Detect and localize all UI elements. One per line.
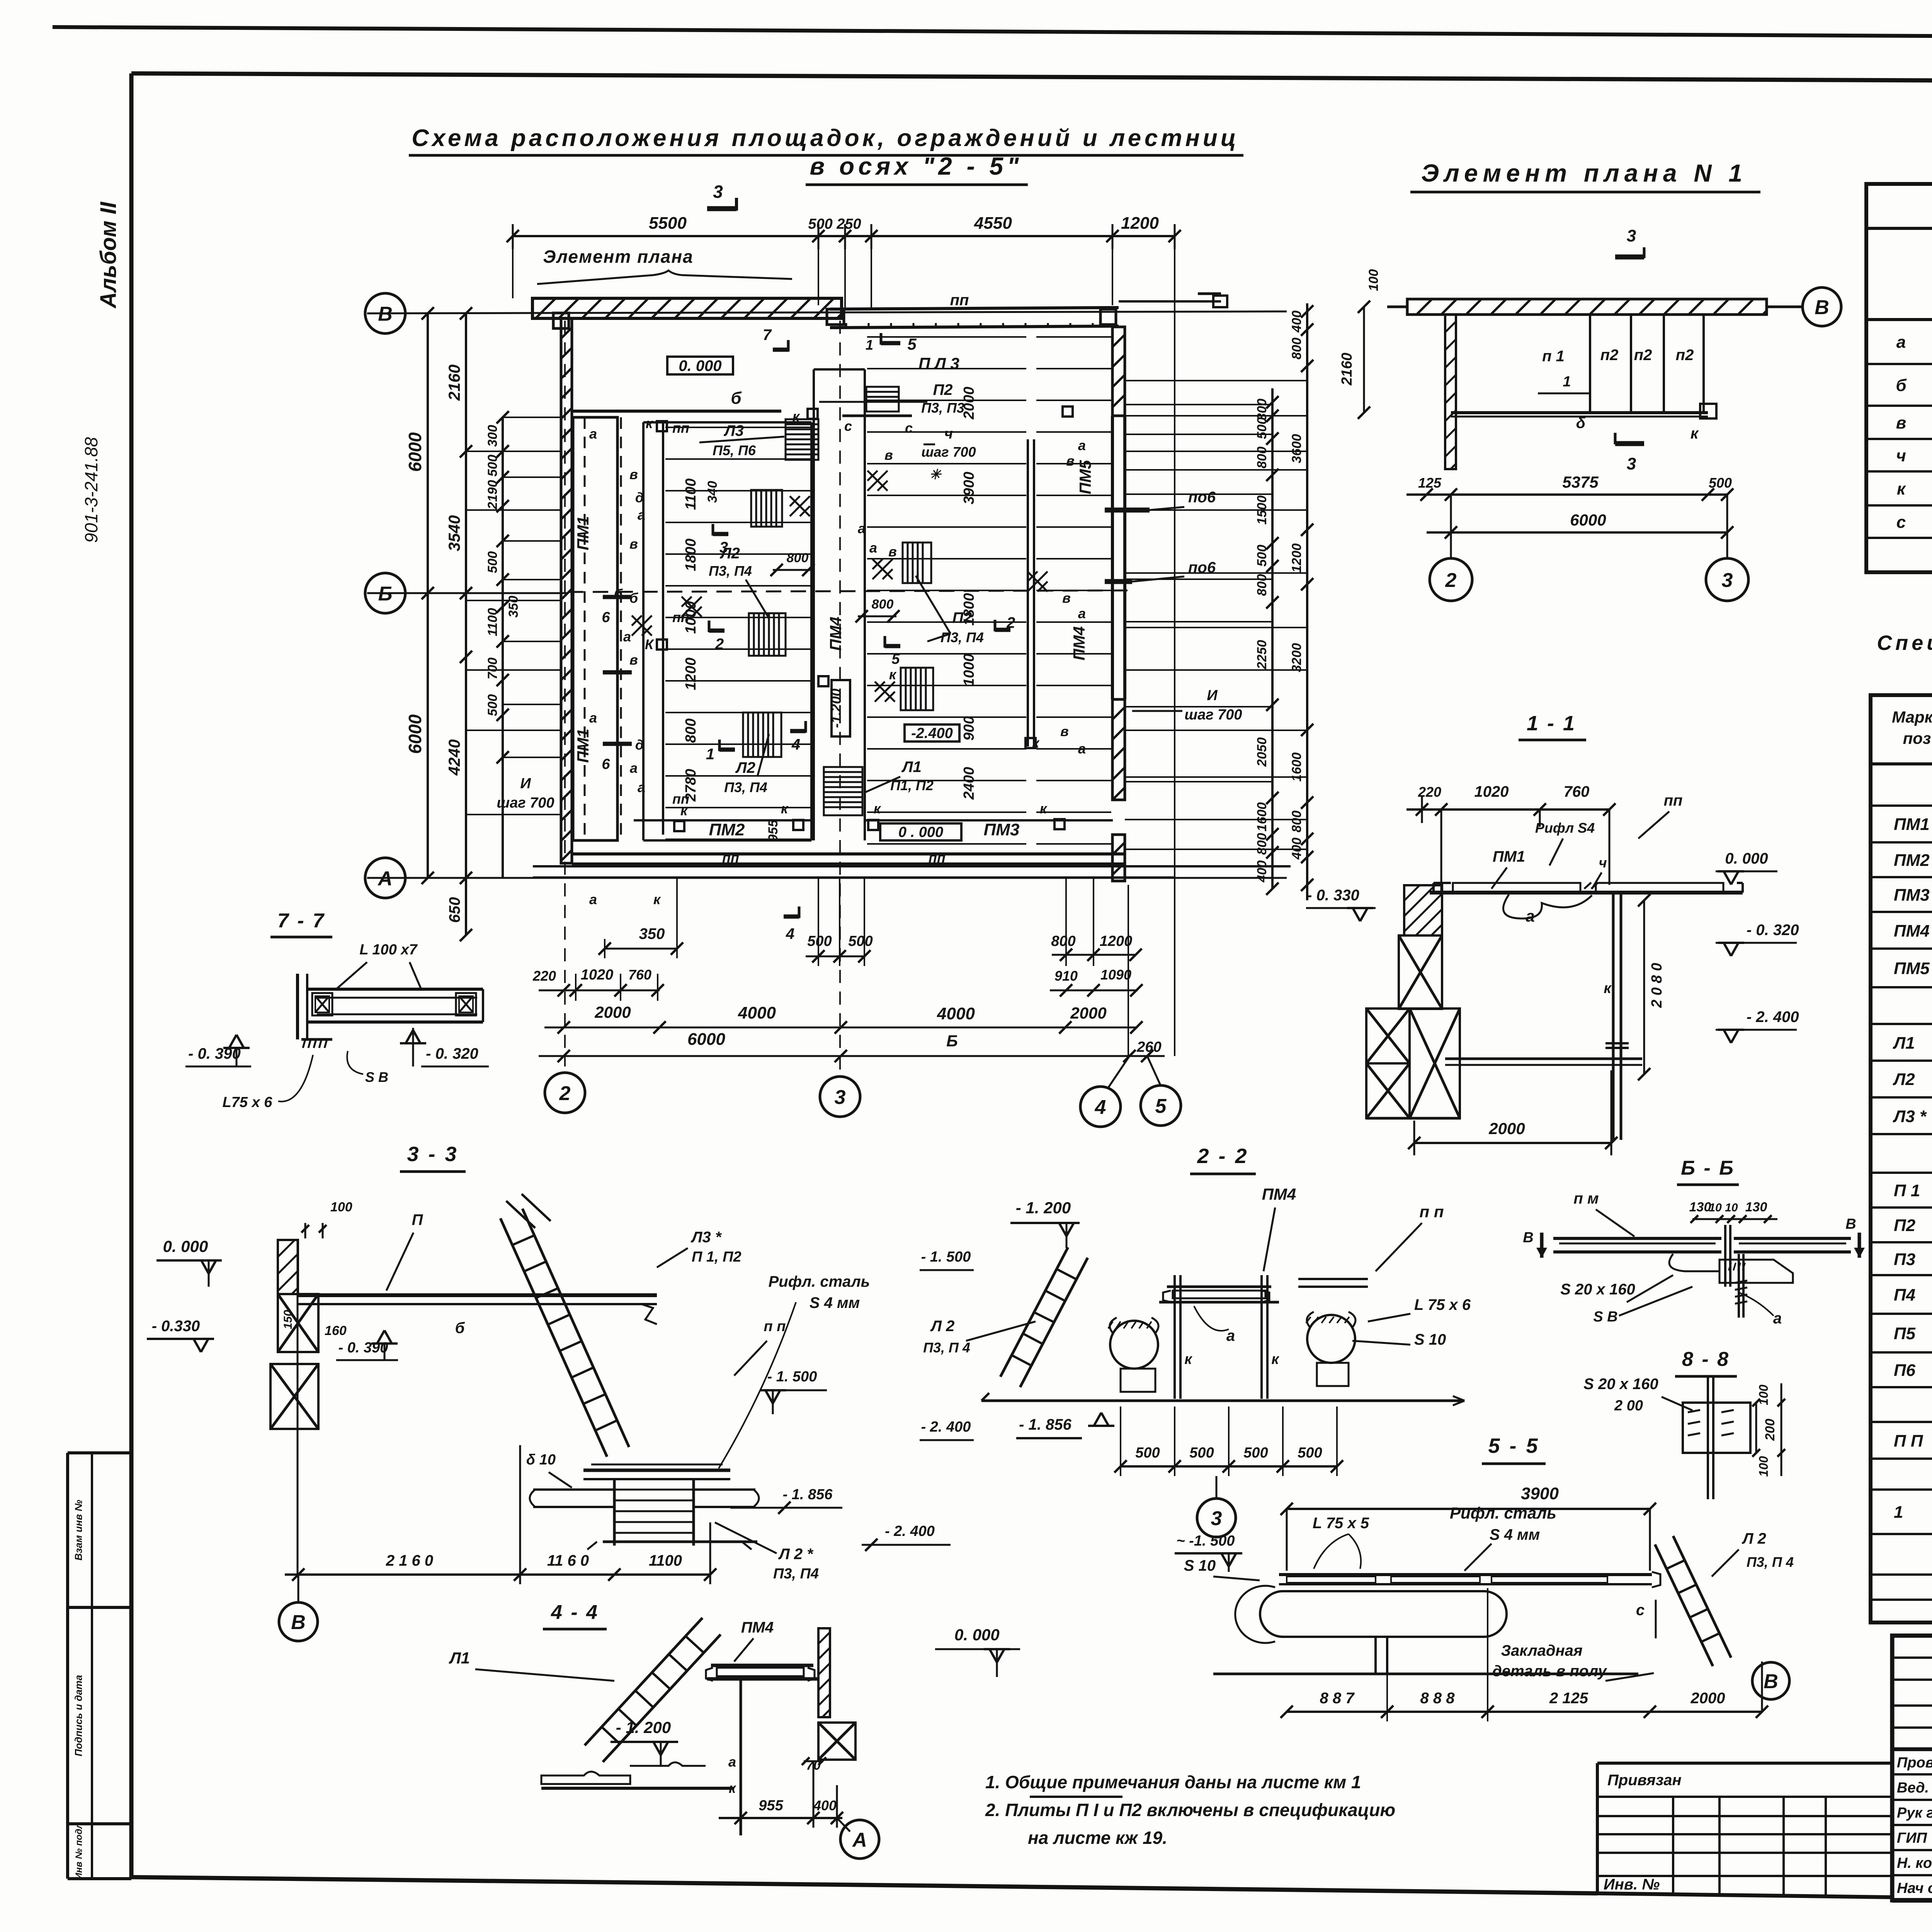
svg-text:ПМ1: ПМ1 bbox=[574, 729, 592, 763]
svg-text:п м: п м bbox=[1573, 1190, 1599, 1207]
svg-text:3: 3 bbox=[1211, 1507, 1222, 1530]
svg-text:955: 955 bbox=[759, 1798, 783, 1814]
svg-text:Б: Б bbox=[378, 583, 393, 605]
svg-text:8 - 8: 8 - 8 bbox=[1682, 1348, 1730, 1371]
svg-text:по6: по6 bbox=[1188, 489, 1216, 506]
label box 0.000 bottom bbox=[880, 823, 961, 840]
svg-text:Инв № подл: Инв № подл bbox=[74, 1823, 84, 1879]
svg-text:Схема расположения площадок,: Схема расположения площадок, ограждений … bbox=[412, 125, 1239, 151]
plan: long extension lines right bbox=[1125, 380, 1307, 381]
svg-text:В: В bbox=[291, 1611, 306, 1634]
svg-text:200: 200 bbox=[1763, 1419, 1777, 1441]
1-1 column k bbox=[1612, 893, 1615, 1140]
svg-text:Рифл S4: Рифл S4 bbox=[1535, 820, 1595, 836]
svg-text:7 - 7: 7 - 7 bbox=[277, 910, 325, 932]
svg-text:125: 125 bbox=[1418, 475, 1442, 491]
svg-text:Рифл. сталь: Рифл. сталь bbox=[769, 1273, 870, 1290]
svg-text:S B: S B bbox=[365, 1069, 388, 1085]
svg-text:0 . 000: 0 . 000 bbox=[898, 824, 943, 840]
svg-text:с: с bbox=[1636, 1602, 1645, 1619]
svg-text:П4: П4 bbox=[1894, 1286, 1915, 1304]
svg-text:955: 955 bbox=[766, 820, 781, 842]
svg-text:2: 2 bbox=[715, 636, 724, 653]
svg-text:400: 400 bbox=[813, 1798, 837, 1813]
plan: left dim chain 2 bbox=[465, 313, 467, 935]
3-3 floor plate bbox=[298, 1293, 657, 1297]
svg-text:L 75 x 5: L 75 x 5 bbox=[1313, 1515, 1369, 1532]
svg-text:б: б bbox=[455, 1320, 465, 1337]
svg-text:2 0 8 0: 2 0 8 0 bbox=[1649, 963, 1665, 1008]
svg-text:-2.400: -2.400 bbox=[911, 725, 953, 742]
svg-text:260: 260 bbox=[1136, 1039, 1161, 1055]
svg-text:А: А bbox=[377, 867, 393, 890]
svg-text:б: б bbox=[731, 389, 742, 408]
svg-text:Л1: Л1 bbox=[1893, 1034, 1915, 1053]
svg-text:к: к bbox=[781, 801, 789, 816]
title block frame bbox=[1892, 1636, 1932, 1900]
svg-text:-1.200: -1.200 bbox=[828, 689, 844, 728]
1-1 lower floor line bbox=[1445, 1058, 1642, 1060]
plan: right wall hatched bbox=[1112, 327, 1125, 416]
3-3 axis circle B bbox=[298, 1575, 299, 1602]
svg-text:1090: 1090 bbox=[1100, 967, 1131, 983]
svg-text:2190: 2190 bbox=[485, 480, 500, 510]
svg-text:в: в bbox=[629, 652, 638, 668]
detail axis circles 2,3 bbox=[1450, 539, 1452, 560]
svg-text:А: А bbox=[852, 1829, 867, 1851]
svg-text:5: 5 bbox=[907, 335, 917, 353]
plan: section flag 3 top bbox=[707, 206, 736, 211]
svg-text:ПМ5: ПМ5 bbox=[1894, 959, 1930, 978]
small dims 800 bbox=[773, 569, 811, 571]
3-3 bottom dims bbox=[285, 1573, 710, 1576]
svg-text:Л1: Л1 bbox=[449, 1649, 470, 1667]
spec rows bbox=[1871, 804, 1932, 807]
svg-text:В: В bbox=[1523, 1230, 1533, 1246]
svg-text:2: 2 bbox=[559, 1082, 571, 1105]
svg-text:И: И bbox=[1207, 687, 1218, 704]
svg-text:с: с bbox=[905, 420, 913, 436]
svg-text:П3, П4: П3, П4 bbox=[940, 629, 984, 645]
svg-text:ч: ч bbox=[944, 426, 953, 442]
2-2 bottom dims bbox=[1121, 1465, 1337, 1468]
svg-text:500: 500 bbox=[1709, 475, 1732, 491]
svg-text:δ: δ bbox=[1576, 415, 1586, 432]
svg-text:Взам инв №: Взам инв № bbox=[73, 1500, 84, 1560]
svg-text:L 75 x 6: L 75 x 6 bbox=[1414, 1296, 1471, 1313]
svg-text:п п: п п bbox=[764, 1318, 786, 1335]
plan bottom dims: 220 1020 760 bbox=[539, 990, 660, 992]
svg-text:п2: п2 bbox=[1676, 347, 1694, 364]
7-7 bracket below bbox=[301, 1038, 332, 1041]
svg-text:ПМ4: ПМ4 bbox=[741, 1619, 774, 1636]
right interior platform edge bbox=[1027, 439, 1029, 747]
svg-text:к: к bbox=[1271, 1351, 1279, 1367]
svg-text:500: 500 bbox=[485, 455, 500, 477]
4-4 steps bbox=[541, 1772, 630, 1784]
svg-text:4000: 4000 bbox=[937, 1004, 975, 1023]
svg-text:Привязан: Привязан bbox=[1607, 1772, 1682, 1789]
svg-text:6: 6 bbox=[602, 756, 610, 772]
axis circle А bbox=[365, 858, 405, 898]
plan: bottom band bbox=[572, 852, 1125, 855]
svg-text:ПМ4: ПМ4 bbox=[1070, 626, 1088, 661]
svg-text:800: 800 bbox=[1255, 447, 1269, 469]
svg-text:S 20 x 160: S 20 x 160 bbox=[1583, 1376, 1658, 1393]
left margin boxes bbox=[68, 1451, 131, 1454]
svg-text:500: 500 bbox=[1255, 417, 1269, 439]
svg-text:К: К bbox=[645, 636, 655, 652]
1-1 top dims bbox=[1406, 808, 1609, 811]
svg-text:в: в bbox=[629, 466, 638, 482]
svg-text:6000: 6000 bbox=[687, 1030, 725, 1049]
svg-text:П 1, П2: П 1, П2 bbox=[692, 1249, 742, 1265]
label box -1.200 bbox=[832, 680, 850, 736]
svg-text:500: 500 bbox=[1135, 1445, 1160, 1461]
3-3 shaft box with rungs bbox=[613, 1479, 616, 1546]
plan: central interior outline bbox=[643, 421, 811, 423]
svg-text:Элемент плана N 1: Элемент плана N 1 bbox=[1421, 159, 1747, 187]
vedomost table frame bbox=[1866, 184, 1932, 572]
svg-text:2160: 2160 bbox=[1339, 353, 1355, 386]
plan: axis line B bbox=[367, 311, 1287, 313]
svg-text:а: а bbox=[728, 1754, 736, 1770]
5-5 top dim 3900 bbox=[1287, 1508, 1650, 1510]
svg-text:1: 1 bbox=[706, 746, 714, 763]
svg-text:350: 350 bbox=[639, 925, 665, 942]
plan bottom dims: 6000 B 260 bbox=[539, 1055, 1165, 1057]
svg-text:L75 x 6: L75 x 6 bbox=[223, 1094, 273, 1111]
svg-text:к: к bbox=[680, 803, 688, 818]
axis circle 3 bbox=[839, 321, 841, 1077]
plan bottom dims: 910 1090 bbox=[1050, 990, 1138, 992]
svg-text:поз: поз bbox=[1903, 729, 1931, 747]
svg-text:S 10: S 10 bbox=[1184, 1557, 1216, 1574]
svg-text:П 1: П 1 bbox=[1894, 1181, 1920, 1200]
svg-text:п 1: п 1 bbox=[1542, 348, 1565, 365]
4-4 bottom dims bbox=[719, 1817, 842, 1819]
svg-text:800: 800 bbox=[1051, 933, 1075, 949]
svg-text:6000: 6000 bbox=[405, 714, 425, 754]
svg-text:п п: п п bbox=[1420, 1202, 1444, 1221]
svg-text:деталь в полу: деталь в полу bbox=[1492, 1663, 1607, 1680]
plan: axis line Б bbox=[367, 592, 568, 594]
svg-text:пп: пп bbox=[929, 850, 946, 866]
svg-text:500: 500 bbox=[807, 933, 832, 949]
spec table frame bbox=[1871, 695, 1932, 1622]
plan: top wall column squares bbox=[553, 313, 569, 328]
plan: T marks left bbox=[603, 595, 632, 599]
svg-text:П2: П2 bbox=[933, 381, 952, 398]
svg-text:ПМ2: ПМ2 bbox=[1894, 851, 1930, 870]
svg-text:5500: 5500 bbox=[649, 214, 687, 233]
svg-text:В: В bbox=[1764, 1670, 1778, 1693]
svg-text:3: 3 bbox=[713, 182, 723, 202]
svg-text:к: к bbox=[1604, 980, 1612, 997]
plan: right extension ticks bbox=[1119, 300, 1221, 303]
svg-text:ПМ2: ПМ2 bbox=[709, 820, 745, 839]
svg-text:800: 800 bbox=[1255, 574, 1269, 596]
svg-text:а: а bbox=[1078, 437, 1086, 453]
svg-text:150: 150 bbox=[282, 1310, 294, 1329]
svg-text:400: 400 bbox=[1289, 838, 1304, 860]
svg-text:3: 3 bbox=[1627, 226, 1636, 245]
svg-text:Альбом II: Альбом II bbox=[96, 201, 121, 309]
svg-text:10 10: 10 10 bbox=[1709, 1201, 1738, 1214]
svg-text:П3, П3: П3, П3 bbox=[921, 400, 964, 416]
svg-text:800: 800 bbox=[1289, 338, 1304, 360]
svg-text:к: к bbox=[1897, 480, 1906, 498]
axis circle 4 bbox=[1128, 885, 1129, 1056]
plan: extension lines above (top dims) bbox=[818, 243, 819, 305]
svg-text:ПМ1: ПМ1 bbox=[1493, 848, 1525, 865]
svg-text:Л2: Л2 bbox=[735, 759, 755, 776]
svg-text:130: 130 bbox=[1745, 1200, 1767, 1214]
svg-text:700: 700 bbox=[485, 658, 500, 680]
svg-text:100: 100 bbox=[330, 1200, 352, 1214]
5-5 right ladder bbox=[1673, 1536, 1731, 1658]
privyazan table bbox=[1597, 1762, 1892, 1765]
plan: long extension lines left bbox=[466, 451, 561, 452]
detail section marks 3 bbox=[1615, 255, 1644, 260]
svg-text:в: в bbox=[1062, 590, 1071, 606]
svg-text:2780: 2780 bbox=[683, 769, 699, 802]
svg-text:И: И bbox=[520, 776, 531, 792]
plan bottom dims: 2000 4000 4000 2000 bbox=[544, 1027, 1138, 1029]
svg-text:Подпись и дата: Подпись и дата bbox=[73, 1675, 84, 1757]
svg-text:✳: ✳ bbox=[929, 466, 942, 482]
svg-text:Б: Б bbox=[946, 1032, 958, 1050]
svg-text:в: в bbox=[629, 536, 638, 552]
svg-text:100: 100 bbox=[1757, 1384, 1770, 1405]
section flags in plan bbox=[773, 348, 788, 352]
svg-text:ПМ1: ПМ1 bbox=[574, 516, 592, 551]
svg-text:Л 2: Л 2 bbox=[930, 1318, 955, 1335]
svg-text:- 1. 200: - 1. 200 bbox=[616, 1718, 671, 1736]
svg-text:2 1 6 0: 2 1 6 0 bbox=[386, 1552, 433, 1569]
svg-text:а: а bbox=[869, 540, 877, 556]
plan: left dim chain 1 bbox=[427, 313, 429, 878]
svg-text:а: а bbox=[1896, 333, 1906, 352]
svg-text:П3, П4: П3, П4 bbox=[709, 563, 752, 579]
2-2 pipes bbox=[1110, 1321, 1158, 1369]
svg-text:800: 800 bbox=[872, 597, 894, 612]
svg-text:800: 800 bbox=[787, 551, 809, 565]
svg-text:S 10: S 10 bbox=[1414, 1331, 1446, 1348]
axis circle Б bbox=[365, 573, 405, 613]
3-3 wall column bbox=[278, 1240, 298, 1294]
plan: interior top beam b bbox=[571, 410, 781, 413]
svg-text:Провер: Провер bbox=[1897, 1755, 1932, 1771]
svg-text:ч: ч bbox=[1896, 446, 1906, 465]
svg-text:500: 500 bbox=[485, 694, 500, 716]
svg-text:5: 5 bbox=[1155, 1095, 1167, 1117]
svg-text:11 6 0: 11 6 0 bbox=[547, 1552, 589, 1569]
svg-text:1000: 1000 bbox=[961, 654, 977, 687]
svg-text:1020: 1020 bbox=[1475, 783, 1509, 800]
svg-text:400: 400 bbox=[1255, 861, 1269, 883]
Б-Б platform plates bbox=[1553, 1237, 1721, 1240]
svg-text:- 1. 200: - 1. 200 bbox=[1016, 1199, 1071, 1217]
svg-text:шаг 700: шаг 700 bbox=[1184, 707, 1242, 723]
svg-text:П: П bbox=[412, 1211, 423, 1228]
axis circle 2 bbox=[564, 321, 566, 1066]
svg-text:L 100 x7: L 100 x7 bbox=[359, 942, 418, 958]
po6 labels right bbox=[1105, 508, 1150, 513]
svg-text:760: 760 bbox=[628, 967, 651, 983]
svg-text:ПМ4: ПМ4 bbox=[827, 617, 845, 651]
svg-text:2050: 2050 bbox=[1255, 737, 1269, 767]
svg-text:400: 400 bbox=[1289, 311, 1304, 333]
svg-text:3 - 3: 3 - 3 bbox=[407, 1143, 458, 1166]
svg-text:Закладная: Закладная bbox=[1501, 1642, 1582, 1659]
2-2 platform deck bbox=[1167, 1286, 1271, 1288]
svg-text:500: 500 bbox=[1189, 1445, 1214, 1461]
svg-text:Л3 *: Л3 * bbox=[1893, 1107, 1927, 1126]
svg-text:2 - 2: 2 - 2 bbox=[1197, 1145, 1248, 1168]
plan: interior beam grid left zone bbox=[665, 427, 811, 428]
3-3 platform mid bbox=[583, 1469, 730, 1472]
svg-text:7: 7 bbox=[763, 327, 772, 344]
svg-text:0. 000: 0. 000 bbox=[1725, 850, 1768, 867]
svg-text:2000: 2000 bbox=[1070, 1004, 1106, 1022]
svg-text:П5, П6: П5, П6 bbox=[713, 442, 756, 458]
svg-text:к: к bbox=[889, 667, 897, 682]
svg-text:Л3: Л3 bbox=[723, 422, 744, 439]
svg-text:ПМ5: ПМ5 bbox=[1076, 460, 1094, 494]
5-5 axis circle В bbox=[1761, 1662, 1763, 1712]
axis circle 5 bbox=[1147, 1056, 1161, 1086]
svg-text:- 1. 856: - 1. 856 bbox=[783, 1486, 833, 1503]
stair L3 top (hatched) bbox=[786, 419, 818, 460]
svg-text:к: к bbox=[729, 1780, 736, 1796]
svg-text:0. 000: 0. 000 bbox=[163, 1237, 208, 1255]
svg-text:- 1. 500: - 1. 500 bbox=[767, 1369, 817, 1385]
detail struts bbox=[1589, 315, 1591, 413]
1-1 a bubble bbox=[1503, 895, 1592, 918]
svg-text:к: к bbox=[1040, 801, 1048, 816]
svg-text:3900: 3900 bbox=[1521, 1484, 1559, 1503]
svg-text:1100: 1100 bbox=[683, 478, 699, 510]
svg-text:Элемент плана: Элемент плана bbox=[543, 247, 693, 267]
svg-text:S 4 мм: S 4 мм bbox=[810, 1294, 860, 1311]
svg-text:Вед. инж: Вед. инж bbox=[1897, 1780, 1932, 1796]
svg-text:Л2: Л2 bbox=[1893, 1070, 1915, 1089]
svg-text:S B: S B bbox=[1593, 1309, 1617, 1325]
svg-text:5 - 5: 5 - 5 bbox=[1488, 1434, 1539, 1458]
detail left column bbox=[1445, 315, 1456, 469]
4-4 wall column bbox=[818, 1628, 830, 1717]
svg-text:Инв. №: Инв. № bbox=[1604, 1876, 1660, 1893]
1-1 platform bbox=[1430, 891, 1743, 895]
sheet outer top line bbox=[53, 27, 1932, 40]
plan bottom dims: 800 1200 bbox=[1052, 954, 1136, 956]
svg-text:2000: 2000 bbox=[594, 1003, 631, 1021]
svg-text:в: в bbox=[1896, 413, 1906, 432]
svg-text:2000: 2000 bbox=[1488, 1119, 1525, 1138]
stairs interior right bbox=[866, 387, 899, 412]
svg-text:- 0. 320: - 0. 320 bbox=[426, 1045, 478, 1062]
PM4 corridor bbox=[813, 369, 815, 840]
svg-text:пп: пп bbox=[950, 292, 969, 309]
plan: left dim chain 3 bbox=[502, 417, 504, 878]
stair L1 bottom center bbox=[824, 767, 862, 815]
svg-text:к: к bbox=[1184, 1351, 1192, 1367]
svg-text:4: 4 bbox=[1095, 1096, 1106, 1119]
svg-text:а: а bbox=[589, 426, 597, 442]
svg-text:2400: 2400 bbox=[961, 767, 977, 800]
3-3 side pipes bbox=[533, 1488, 614, 1491]
svg-text:350: 350 bbox=[506, 596, 521, 618]
svg-text:340: 340 bbox=[705, 481, 720, 503]
svg-text:Л1: Л1 bbox=[901, 759, 922, 776]
svg-text:3: 3 bbox=[1627, 454, 1636, 473]
svg-text:220: 220 bbox=[532, 968, 556, 984]
svg-text:к: к bbox=[874, 801, 881, 816]
svg-text:а: а bbox=[858, 520, 866, 536]
svg-text:100: 100 bbox=[1366, 269, 1381, 291]
label box -2.400 bbox=[905, 724, 959, 742]
detail bottom chord bbox=[1451, 411, 1708, 414]
detail axis circle В bbox=[1803, 287, 1841, 326]
svg-text:800: 800 bbox=[1255, 833, 1269, 855]
svg-text:ПМ4: ПМ4 bbox=[1894, 922, 1930, 940]
plan bottom band bbox=[533, 865, 1291, 867]
svg-text:В: В bbox=[378, 303, 393, 325]
2-2 ladder left bbox=[1020, 1258, 1088, 1387]
svg-text:500: 500 bbox=[848, 933, 872, 949]
svg-text:П3, П4: П3, П4 bbox=[724, 779, 767, 795]
svg-text:а: а bbox=[589, 710, 597, 726]
svg-text:ПМ1: ПМ1 bbox=[1894, 815, 1930, 834]
svg-text:п2: п2 bbox=[1634, 347, 1652, 364]
svg-text:Б - Б: Б - Б bbox=[1681, 1157, 1735, 1179]
2-2 ground line bbox=[981, 1400, 1464, 1402]
svg-text:2 00: 2 00 bbox=[1614, 1398, 1643, 1414]
svg-text:- 2. 400: - 2. 400 bbox=[885, 1523, 935, 1539]
4-4 column under bbox=[740, 1679, 742, 1835]
svg-text:Н. контр.: Н. контр. bbox=[1897, 1855, 1932, 1871]
svg-text:3540: 3540 bbox=[445, 515, 463, 551]
svg-text:4550: 4550 bbox=[974, 214, 1012, 233]
svg-text:п2: п2 bbox=[1600, 347, 1619, 364]
1-1 crossed wall boxes bbox=[1404, 885, 1442, 935]
svg-text:шаг 700: шаг 700 bbox=[921, 444, 976, 460]
svg-text:1. Общие примечания даны н: 1. Общие примечания даны на листе км 1 bbox=[985, 1772, 1361, 1792]
svg-text:3900: 3900 bbox=[961, 472, 977, 505]
svg-text:901-3-241.88: 901-3-241.88 bbox=[81, 437, 101, 543]
svg-text:П3, П4: П3, П4 bbox=[773, 1566, 819, 1582]
svg-text:2000: 2000 bbox=[1690, 1690, 1725, 1707]
svg-text:- 1. 856: - 1. 856 bbox=[1019, 1416, 1071, 1433]
svg-text:в: в bbox=[888, 544, 897, 560]
svg-text:а: а bbox=[1773, 1310, 1782, 1327]
svg-text:5375: 5375 bbox=[1562, 473, 1599, 491]
svg-text:- 0. 390: - 0. 390 bbox=[338, 1340, 388, 1356]
svg-text:Рук гр: Рук гр bbox=[1897, 1805, 1932, 1821]
detail: hatched beam bbox=[1407, 299, 1767, 315]
2-2 axis circle 3 bbox=[1216, 1476, 1218, 1497]
svg-text:3600: 3600 bbox=[1289, 434, 1304, 463]
svg-text:в: в bbox=[1066, 453, 1075, 469]
svg-text:4000: 4000 bbox=[738, 1003, 776, 1022]
svg-text:1500: 1500 bbox=[1255, 495, 1269, 525]
svg-text:Нач отд: Нач отд bbox=[1897, 1880, 1932, 1896]
svg-text:пп: пп bbox=[1664, 792, 1683, 809]
8-8 plate bbox=[1683, 1403, 1750, 1453]
svg-text:2160: 2160 bbox=[445, 364, 463, 401]
svg-text:8 8 8: 8 8 8 bbox=[1420, 1690, 1455, 1707]
